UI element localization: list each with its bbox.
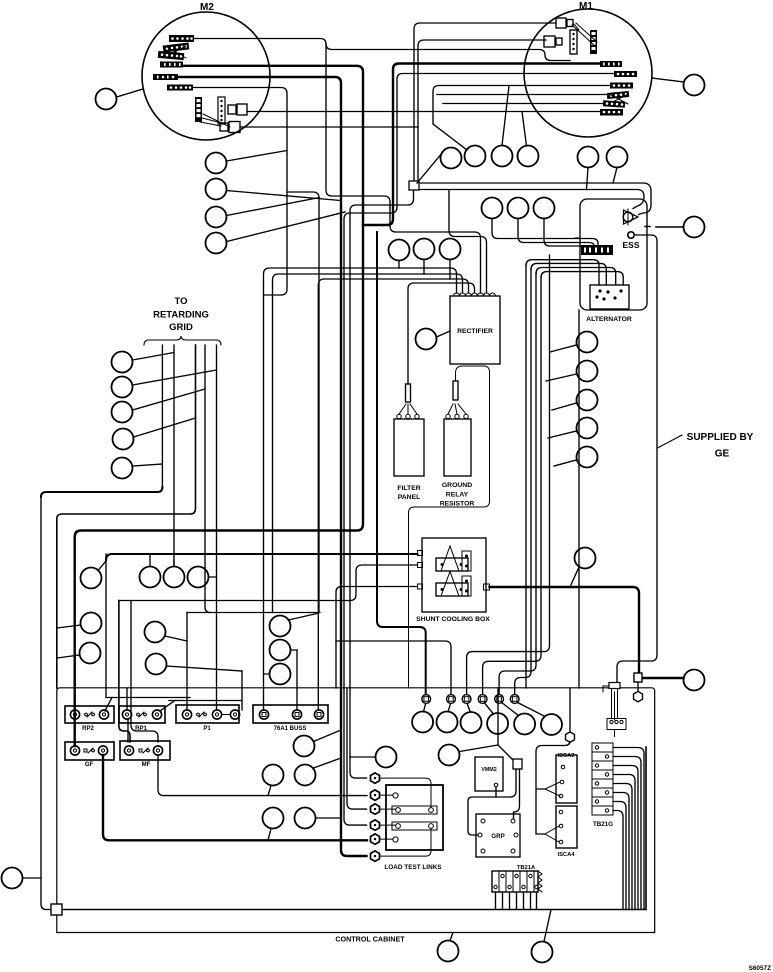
M1 connector plug upper bbox=[556, 18, 573, 28]
leader node to callout bbox=[417, 152, 443, 183]
M1 plug-to-strip diagonal wires bbox=[572, 23, 597, 45]
TB21G strip bbox=[592, 743, 613, 828]
leader shunt callout bbox=[570, 567, 579, 587]
svg-text:P1: P1 bbox=[203, 726, 211, 732]
callout balloon at 587,457 bbox=[577, 447, 598, 468]
callout balloon at 156,664 bbox=[146, 654, 167, 675]
wire M1-b5 left bbox=[443, 103, 603, 105]
alternator terminal box bbox=[586, 285, 632, 323]
callout balloon at 216,243 bbox=[206, 233, 227, 254]
shunt relay 1 bbox=[436, 558, 468, 571]
shunt relay 2 bbox=[436, 583, 468, 596]
wire trunk staircase to bolt3 bbox=[467, 255, 550, 695]
M2 terminal block row4 bbox=[160, 62, 183, 68]
svg-text:SHUNT COOLING BOX: SHUNT COOLING BOX bbox=[416, 616, 490, 623]
GRP box bbox=[476, 814, 520, 857]
wire node to hex bolt bbox=[637, 682, 639, 691]
fuse assembly below link node bbox=[607, 689, 626, 737]
callout balloon at 451,158 bbox=[441, 148, 462, 169]
rectifier callout leader bbox=[437, 331, 451, 337]
wire M1-b6 long to M2 plug1 bbox=[247, 112, 600, 147]
callout balloon at 587,428 bbox=[577, 418, 598, 439]
callout balloon at 542,952 bbox=[532, 942, 553, 963]
leader bottom callout 1 bbox=[450, 933, 453, 941]
TO RETARDING GRID label bbox=[144, 296, 221, 345]
RP2 contactor bbox=[65, 706, 114, 732]
svg-text:RESISTOR: RESISTOR bbox=[440, 501, 475, 508]
P1 contactor bbox=[176, 705, 240, 732]
callout balloon at 450,249 bbox=[440, 239, 461, 260]
leaders bolts to callouts bbox=[424, 702, 545, 716]
alternator feed 1 from trunk bbox=[526, 260, 599, 285]
leader callouts right of P1 bbox=[264, 614, 318, 675]
bolt terminals row bbox=[422, 695, 519, 704]
trunk vertical middle right bbox=[525, 266, 527, 688]
svg-text:RETARDING: RETARDING bbox=[153, 310, 209, 321]
M1 terminal block row3 bbox=[610, 83, 633, 89]
wire ISCA bracket vertical from hex bbox=[536, 742, 570, 835]
leaders right column callouts bbox=[546, 345, 577, 466]
wire far left vertical to square node bbox=[41, 496, 51, 910]
callout balloon at 587,400 bbox=[577, 390, 598, 411]
M1 terminal block row6 bbox=[600, 109, 623, 116]
callout balloon at 585,558 bbox=[575, 548, 596, 569]
MF contactor bbox=[120, 741, 170, 768]
wire 76A1-1 up to rectifier t1 bbox=[264, 268, 457, 710]
M2 terminal block row5 bbox=[153, 74, 178, 80]
wire thick trunk to bolt1 bbox=[377, 232, 426, 695]
alternator feed 3 from trunk bbox=[536, 268, 616, 286]
alternator feed 2 from trunk bbox=[531, 263, 606, 285]
stub callout above rectifier 3 bbox=[449, 260, 451, 280]
callout balloon at 694,227 bbox=[684, 217, 705, 238]
rectifier box bbox=[450, 293, 500, 364]
callout balloon at 424,249 bbox=[414, 239, 435, 260]
callout balloon at 122,412 bbox=[112, 402, 133, 423]
wire right node to callout thick bbox=[642, 677, 684, 679]
wire RP2-R diagonal feed bbox=[105, 698, 190, 712]
76A1 buss bbox=[253, 705, 328, 732]
RP1 contactor bbox=[119, 706, 165, 732]
svg-text:GE: GE bbox=[715, 449, 730, 460]
callout balloon at 198,577 bbox=[188, 567, 209, 588]
svg-text:GRID: GRID bbox=[169, 322, 193, 333]
M1 terminal block row2 bbox=[614, 71, 637, 77]
wire thick elbow y492 to left edge bbox=[41, 487, 162, 497]
callout balloon at 448,951 bbox=[438, 941, 459, 962]
ground relay resistor bbox=[409, 366, 490, 688]
retarding vertical v1 bbox=[161, 345, 163, 488]
wire shunt L3 from trunk bbox=[336, 587, 418, 689]
SUPPLIED BY GE label bbox=[658, 432, 754, 460]
svg-text:M1: M1 bbox=[579, 1, 593, 12]
leaders below-M2 callouts to trunks bbox=[227, 151, 346, 242]
retarding vertical v3 thick to left edge down bbox=[57, 345, 196, 688]
leaders retarding callouts bbox=[133, 353, 217, 467]
callout balloon at 304,746 bbox=[294, 736, 315, 757]
svg-text:CONTROL CABINET: CONTROL CABINET bbox=[335, 935, 405, 944]
wire W-M thick vertical to MF bbox=[119, 601, 130, 743]
callout balloon at 518,208 bbox=[508, 198, 529, 219]
svg-text:TO: TO bbox=[174, 296, 187, 307]
callout balloon at 492,208 bbox=[482, 198, 503, 219]
alternator feed 4 from trunk bbox=[541, 272, 623, 285]
svg-text:GROUND: GROUND bbox=[442, 482, 472, 489]
wire 76A1-3 up to rectifier t3 bbox=[318, 279, 468, 710]
M1 connector plug lower bbox=[544, 36, 562, 47]
callout balloon at 122,468 bbox=[112, 458, 133, 479]
callout balloon at 475,156 bbox=[465, 146, 486, 167]
ESS arrow symbol bbox=[623, 209, 638, 225]
svg-text:M2: M2 bbox=[200, 2, 214, 13]
VMM2 box bbox=[475, 757, 503, 791]
callout balloon at 587,342 bbox=[577, 332, 598, 353]
alternator enclosure box bbox=[580, 199, 647, 310]
stub callout above rectifier 2 bbox=[423, 260, 425, 275]
callout balloon at 617,157 bbox=[607, 147, 628, 168]
svg-text:ESS: ESS bbox=[622, 240, 639, 250]
junction node top middle bbox=[409, 181, 419, 190]
wire W5 to shunt L2 bbox=[119, 565, 418, 601]
TB21A strip bbox=[492, 865, 542, 892]
retarding grid brace bbox=[144, 336, 221, 345]
leader VMM2 callout bbox=[350, 756, 376, 758]
wire node bottom to hex3 trunk bbox=[350, 190, 414, 778]
wire M1-b4 left bbox=[437, 94, 607, 96]
callout balloon at 694,680 bbox=[684, 670, 705, 691]
M2 block row2-3 cross brace bbox=[165, 46, 186, 58]
callout balloon at 150,577 bbox=[140, 567, 161, 588]
svg-text:RP2: RP2 bbox=[82, 726, 94, 732]
wire W-N vertical to MF right bbox=[131, 601, 158, 743]
VMM2 connector node bbox=[513, 759, 522, 769]
M2 terminal block row2 bbox=[163, 42, 190, 52]
polarity tick near link node bbox=[603, 686, 608, 692]
ESS callout wire and dash bbox=[645, 226, 684, 229]
wire MF-R down to hex2 bbox=[158, 755, 367, 796]
svg-text:RELAY: RELAY bbox=[446, 492, 469, 499]
callout balloon at 305,818 bbox=[295, 808, 316, 829]
wire M2-b1 to M1 strips bbox=[194, 39, 570, 61]
ISCA3 hex bolt bbox=[566, 732, 575, 742]
shunt right terminal bbox=[484, 584, 490, 590]
callout balloon at 399,250 bbox=[389, 240, 410, 261]
M2 vertical strip 1 bbox=[195, 97, 202, 122]
M1 vertical strip 1 bbox=[570, 30, 577, 54]
leader VMM2 callout right diagonal bbox=[460, 745, 499, 752]
motor M1 circle bbox=[524, 1, 652, 137]
svg-text:SUPPLIED BY: SUPPLIED BY bbox=[687, 432, 754, 443]
svg-text:RECTIFIER: RECTIFIER bbox=[457, 328, 493, 335]
callout balloon at 528,156 bbox=[518, 146, 539, 167]
svg-text:RP1: RP1 bbox=[135, 726, 147, 732]
callout balloon at 386,757 bbox=[376, 747, 397, 768]
retarding vertical v5 through P1-2 bbox=[216, 345, 218, 710]
leaders load-test callouts bbox=[268, 730, 341, 840]
load test links box bbox=[380, 778, 443, 871]
wire W4 horizontal to shunt L1 bbox=[106, 554, 418, 560]
wire M1-b2 trunk to hex1 bbox=[344, 74, 614, 826]
callout balloon at 588,157 bbox=[578, 147, 599, 168]
control cabinet inner bottom line bbox=[62, 747, 646, 910]
wire vertical to VMM2 connector bbox=[498, 688, 513, 760]
callout balloon at 155,632 bbox=[145, 622, 166, 643]
wire 76A1 t2 vertical bbox=[273, 274, 463, 613]
wire W4 vertical bbox=[105, 554, 107, 698]
M2 terminal block row3 bbox=[158, 51, 185, 60]
wire trunk staircase to bolt6 bbox=[515, 269, 531, 694]
M2 vertical strip 2 bbox=[218, 97, 225, 124]
small link node right bbox=[609, 683, 620, 689]
wire RP1-L stub bbox=[127, 688, 128, 742]
callout balloon at 694,85 bbox=[684, 75, 705, 96]
wire hex above ISCA3 bbox=[569, 688, 571, 732]
control cabinet inner box bbox=[57, 688, 655, 933]
callout balloon at 122,387 bbox=[112, 377, 133, 398]
ISCA4 box bbox=[545, 806, 577, 858]
callout balloon at 106,99 bbox=[96, 89, 117, 110]
M1 terminal block row5 bbox=[603, 100, 625, 108]
leaders left middle callouts bbox=[57, 625, 242, 671]
load test hex terminals bbox=[371, 773, 380, 861]
GF contactor bbox=[65, 742, 114, 768]
wire riser x319 bbox=[287, 192, 319, 613]
svg-text:ISCA4: ISCA4 bbox=[557, 852, 575, 858]
ESS circle wire down right side bbox=[617, 235, 657, 683]
leader bottom callout 2 bbox=[544, 910, 551, 942]
leader bottom-left callout bbox=[23, 877, 42, 879]
callout balloon at 273,818 bbox=[263, 808, 284, 829]
shunt left terminals bbox=[418, 551, 423, 556]
hex bolt below right node bbox=[634, 691, 643, 701]
svg-text:ALTERNATOR: ALTERNATOR bbox=[586, 316, 632, 323]
M1 terminal block row4 bbox=[607, 91, 629, 99]
svg-text:TB21A: TB21A bbox=[517, 865, 536, 871]
leader circle left of M2 bbox=[117, 89, 144, 97]
callout balloon at 280,674 bbox=[270, 664, 291, 685]
wire P1-1 vertical bbox=[186, 613, 188, 711]
callout balloon at 449,755 bbox=[439, 745, 460, 766]
svg-text:FILTER: FILTER bbox=[397, 485, 420, 492]
M2 strip-to-plug diagonal wires bbox=[200, 114, 230, 127]
callout balloon at 90,653 bbox=[80, 643, 101, 664]
svg-text:LOAD TEST LINKS: LOAD TEST LINKS bbox=[384, 864, 442, 871]
callout balloon at 174,577 bbox=[164, 567, 185, 588]
wire enclosure down right bbox=[578, 310, 580, 688]
stub callouts above alternator to black block bbox=[492, 219, 598, 246]
wire GF-R down to hex5 thick bbox=[103, 755, 367, 840]
junction square node bottom left bbox=[51, 904, 62, 915]
callout balloon at 280,650 bbox=[270, 640, 291, 661]
TB21A wires down bbox=[496, 892, 537, 910]
M1 block row4-5 cross brace bbox=[609, 94, 628, 104]
callout balloon at 216,163 bbox=[206, 153, 227, 174]
M2 connector plug lower bbox=[220, 122, 240, 133]
motor M2 circle bbox=[142, 2, 270, 140]
wire trunk staircase to bolt5 bbox=[499, 274, 536, 695]
M2 terminal block row6 bbox=[167, 85, 193, 91]
callout balloon at 587,371 bbox=[577, 361, 598, 382]
callout balloon at 216,217 bbox=[206, 207, 227, 228]
wire horizontal y612 bbox=[187, 612, 320, 614]
callout balloon at 502,156 bbox=[492, 146, 513, 167]
black connector block near alternator bbox=[575, 238, 613, 255]
wire RP1-R diagonal feed bbox=[160, 701, 242, 712]
leader circles above M1 bbox=[587, 168, 618, 190]
svg-text:TB21G: TB21G bbox=[593, 821, 613, 828]
wire M2-b6 down to 76A1 riser bbox=[193, 88, 287, 296]
stub callout above rectifier 1 bbox=[398, 261, 400, 269]
svg-text:S6057Z: S6057Z bbox=[749, 965, 771, 972]
svg-text:PANEL: PANEL bbox=[398, 494, 421, 501]
wire M2-b5 thick trunk to hex6 bbox=[178, 77, 367, 856]
wire P1-3 vertical bbox=[241, 671, 243, 710]
M2 connector plug upper bbox=[228, 104, 247, 115]
leader circle right of M1 bbox=[652, 78, 684, 82]
wire M1-b3 to callout diagonal bbox=[433, 86, 610, 151]
wire from node line down to rectifier t5 bbox=[449, 190, 487, 292]
wires connector to GRP bbox=[496, 769, 520, 819]
callout balloon at 544,208 bbox=[534, 198, 555, 219]
svg-text:MF: MF bbox=[142, 762, 151, 768]
wire node to ESS arrow outer bbox=[420, 183, 652, 215]
wire M1-c1 to junction node bbox=[414, 23, 556, 181]
callout balloon at 216,189 bbox=[206, 179, 227, 200]
filter panel bbox=[394, 384, 424, 501]
retarding vertical v4 bbox=[205, 345, 210, 613]
svg-text:76A1 BUSS: 76A1 BUSS bbox=[274, 726, 307, 732]
leader circle3 steep diagonal bbox=[502, 86, 509, 146]
svg-text:GF: GF bbox=[85, 762, 94, 768]
callout balloon at 91,623 bbox=[81, 613, 102, 634]
wire trunk staircase to bolt4 bbox=[483, 278, 541, 695]
callout balloon at 12,878 bbox=[2, 868, 23, 889]
callout balloon at 280,626 bbox=[270, 616, 291, 637]
wire node to ESS arrow inner bbox=[420, 190, 645, 209]
svg-text:GRP: GRP bbox=[491, 833, 504, 840]
wire M1-b1 thick joining trunk bbox=[363, 64, 600, 226]
shunt cooling box bbox=[416, 538, 490, 623]
M1 terminal block row1 bbox=[600, 61, 622, 67]
callout balloon at 123,439 bbox=[113, 429, 134, 450]
wire M1-c2 to junction node bbox=[418, 40, 546, 181]
svg-text:VMM2: VMM2 bbox=[481, 767, 497, 773]
junction square node right bbox=[634, 673, 642, 682]
retarding vertical v2 to callout E bbox=[173, 345, 175, 567]
callout balloon at 305,775 bbox=[295, 765, 316, 786]
TB21G fan-out wires bbox=[613, 748, 644, 910]
callout balloon at 122,362 bbox=[112, 352, 133, 373]
wire 76A1-2 vertical bbox=[296, 650, 298, 710]
wire shunt output thick to right node bbox=[490, 587, 640, 673]
leaders row above RP2 bbox=[98, 554, 217, 577]
filter panel wire to rectifier bbox=[408, 283, 475, 384]
svg-text:ISCA3: ISCA3 bbox=[557, 753, 575, 759]
callout balloon at 91,578 bbox=[81, 568, 102, 589]
wire trunk to hex4 bbox=[347, 688, 367, 809]
wire VMM2 loop to GRP left bbox=[468, 797, 496, 835]
wire M2-plug2 left-to-node trunk bbox=[240, 126, 418, 128]
callout circles below bolts bbox=[412, 712, 562, 736]
M2 terminal block row1 bbox=[169, 35, 194, 42]
wire branch down from b1 corner to rectifier t4 bbox=[326, 44, 481, 292]
ESS terminal bbox=[622, 232, 639, 250]
callout balloon at 426,339 bbox=[416, 329, 437, 350]
wire bolt2 to shunt feed line bbox=[336, 641, 451, 695]
callout balloon at 273,775 bbox=[263, 765, 284, 786]
M1 vertical strip 2 bbox=[590, 30, 597, 54]
ISCA3 box bbox=[545, 753, 577, 803]
wire M2-b4 thick trunk via x363 to y530 to GF bbox=[75, 66, 363, 746]
